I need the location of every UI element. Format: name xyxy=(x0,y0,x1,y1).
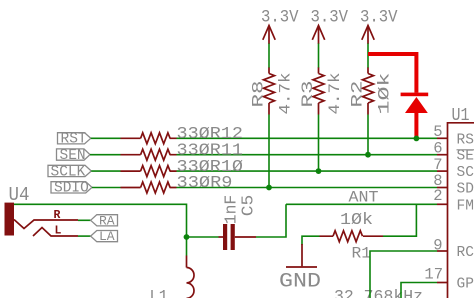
svg-text:SEN: SEN xyxy=(60,148,86,164)
net flag SCLK xyxy=(48,164,91,180)
resistor R12 330 xyxy=(121,124,244,144)
junction (R2 to SEN net) xyxy=(365,152,371,158)
junction (R3 to SCLK net) xyxy=(316,168,322,174)
svg-text:RCLK: RCLK xyxy=(457,245,474,261)
wire R2 column down to SEN row xyxy=(367,115,369,155)
resistor R8 4.7k (vertical) xyxy=(250,68,295,115)
resistor R11 330 xyxy=(121,140,244,160)
pin 8 stub xyxy=(437,187,448,189)
svg-text:3.3V: 3.3V xyxy=(261,8,299,28)
power symbol 3.3V (net for R2) xyxy=(360,8,398,69)
power symbol 3.3V (net for R3) xyxy=(311,8,349,69)
svg-text:R: R xyxy=(54,209,61,222)
pin 17 stub xyxy=(437,282,448,284)
svg-text:SEN: SEN xyxy=(457,149,474,165)
svg-text:R2: R2 xyxy=(349,81,367,108)
svg-text:32.768kHz: 32.768kHz xyxy=(334,287,423,298)
wire SDIO row xyxy=(92,187,437,189)
svg-text:4.7k: 4.7k xyxy=(326,73,344,115)
svg-text:6: 6 xyxy=(433,139,442,157)
wire L contact to LA flag xyxy=(78,235,91,237)
wire xyxy=(268,44,270,69)
net flag SDIO xyxy=(51,181,92,197)
net flag RA xyxy=(91,213,118,228)
svg-text:C5: C5 xyxy=(240,195,259,217)
svg-text:SDIO: SDIO xyxy=(54,181,89,197)
svg-text:RST: RST xyxy=(457,132,474,148)
wire C5 to ANT row xyxy=(256,204,286,237)
svg-text:1Øk: 1Øk xyxy=(376,73,394,115)
wire ANT row to pin 2 xyxy=(286,203,437,205)
wire SEN row xyxy=(90,154,437,156)
wire R3 column down to SCLK row xyxy=(318,115,320,172)
contact L arm xyxy=(33,228,78,237)
svg-text:R3: R3 xyxy=(299,81,317,108)
IC U1 (box, partial) xyxy=(448,106,474,298)
svg-text:17: 17 xyxy=(424,266,443,284)
pin 5 stub xyxy=(437,137,448,139)
svg-text:R8: R8 xyxy=(250,81,268,108)
capacitor C5 1nF xyxy=(219,195,259,250)
wire RST row xyxy=(91,137,437,139)
svg-text:L: L xyxy=(55,225,62,238)
wire xyxy=(318,44,320,69)
svg-text:RA: RA xyxy=(99,213,115,228)
svg-text:LA: LA xyxy=(99,229,115,244)
diode D1 (highlighted, cathode bar up) xyxy=(401,93,429,138)
ground GND xyxy=(279,244,321,294)
junction (R8 to SDIO net) xyxy=(266,185,272,191)
junction (jack/C5/L1 node) xyxy=(184,234,190,240)
svg-text:SCLK: SCLK xyxy=(51,164,86,180)
wire R contact to RA flag xyxy=(78,219,91,221)
wire R1 right to ANT row xyxy=(383,204,416,236)
svg-text:33ØR9: 33ØR9 xyxy=(177,173,233,192)
svg-text:SCLK: SCLK xyxy=(457,165,474,181)
connector U4 audio jack xyxy=(5,184,79,238)
pin 9 stub xyxy=(437,250,448,252)
highlighted thick wire (3.3V to diode) xyxy=(368,52,416,93)
pin 7 stub xyxy=(437,170,448,172)
svg-text:SDIO: SDIO xyxy=(457,182,474,198)
resistor R10 330 xyxy=(121,157,244,177)
svg-text:3.3V: 3.3V xyxy=(311,8,349,28)
wire pin 17 net (to crystal) xyxy=(401,283,437,298)
resistor R2 10k (vertical) xyxy=(349,68,394,115)
pin 2 stub xyxy=(437,203,448,205)
contact R arm xyxy=(14,220,78,229)
svg-text:GPIO: GPIO xyxy=(457,277,474,293)
wire R8 column down to SDIO row xyxy=(268,115,270,188)
net flag SEN xyxy=(57,148,91,164)
net flag LA xyxy=(91,229,118,244)
pin 6 stub xyxy=(437,154,448,156)
svg-text:ANT: ANT xyxy=(349,189,379,207)
wire jack top to antenna node xyxy=(14,204,219,237)
junction (diode to RST net) xyxy=(414,136,420,142)
resistor R1 10k xyxy=(320,211,384,263)
svg-text:3.3V: 3.3V xyxy=(360,8,398,28)
inductor L1 xyxy=(150,237,195,298)
svg-text:7: 7 xyxy=(433,156,442,174)
wire xyxy=(367,44,369,69)
wire R1 left to GND xyxy=(302,236,320,245)
svg-text:GND: GND xyxy=(279,271,321,294)
svg-text:RST: RST xyxy=(61,132,87,148)
resistor R9 330 xyxy=(121,173,233,193)
wire SCLK row xyxy=(91,170,437,172)
svg-text:5: 5 xyxy=(433,123,442,141)
svg-text:R1: R1 xyxy=(352,245,372,263)
svg-text:FMIP: FMIP xyxy=(457,198,474,214)
net flag RST xyxy=(58,132,91,148)
svg-text:4.7k: 4.7k xyxy=(277,73,295,115)
svg-text:1Øk: 1Øk xyxy=(340,211,373,230)
svg-text:L1: L1 xyxy=(150,288,169,298)
wire pin 9 net (to crystal) xyxy=(370,251,437,298)
svg-text:2: 2 xyxy=(433,187,442,205)
power symbol 3.3V (net for R8) xyxy=(261,8,299,69)
resistor R3 4.7k (vertical) xyxy=(299,68,344,115)
